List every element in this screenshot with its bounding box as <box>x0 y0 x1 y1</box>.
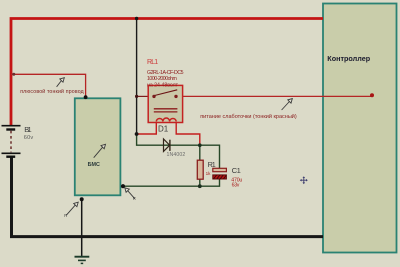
svg-text:C1: C1 <box>232 166 241 175</box>
svg-text:плюсовой тонкий провод: плюсовой тонкий провод <box>20 88 83 95</box>
svg-text:B1: B1 <box>24 125 31 134</box>
svg-text:БМС: БМС <box>88 162 100 168</box>
svg-text:63v: 63v <box>232 183 240 189</box>
svg-text:1N4002: 1N4002 <box>167 152 186 158</box>
svg-text:питание слаботочки (тонкий кра: питание слаботочки (тонкий красный) <box>200 113 297 120</box>
svg-text:60v: 60v <box>24 135 34 141</box>
svg-text:1000-2000ohm: 1000-2000ohm <box>147 76 177 82</box>
svg-text:Контроллер: Контроллер <box>327 54 370 63</box>
svg-text:RL1: RL1 <box>147 59 158 66</box>
svg-text:R: R <box>133 196 136 201</box>
svg-text:1k: 1k <box>206 171 212 176</box>
svg-text:D1: D1 <box>158 125 169 134</box>
svg-text:R1: R1 <box>208 160 216 169</box>
svg-text:на 24-48волт: на 24-48волт <box>147 82 179 88</box>
svg-text:R: R <box>64 213 67 218</box>
